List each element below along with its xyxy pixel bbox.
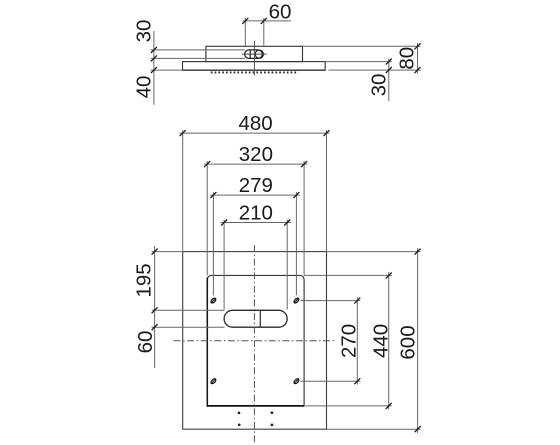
dim 440: dimension line [388, 272, 390, 410]
dim 195/60 (left): dimension line [154, 246, 156, 368]
svg-text:40: 40 [133, 76, 156, 99]
svg-text:30: 30 [367, 74, 390, 97]
dim 60 (top): dimension line [243, 20, 291, 22]
elevation vertical centerline [253, 41, 255, 76]
dim 279: dimension line [210, 194, 300, 196]
svg-text:210: 210 [239, 202, 273, 225]
supply connector stadium [245, 50, 263, 59]
dim 600: ticks [415, 249, 421, 433]
dim 195/60 (left): extension lines [152, 252, 225, 328]
svg-text:440: 440 [369, 324, 392, 358]
plan vertical centerline [253, 245, 255, 444]
dim 279: extension lines [213, 192, 296, 295]
dim 210: ticks [221, 220, 290, 226]
dim 30/40 (left): ticks [151, 47, 157, 73]
svg-text:279: 279 [239, 174, 273, 197]
dim 320: ticks [204, 161, 307, 167]
svg-text:195: 195 [133, 263, 156, 297]
slot divider line [259, 310, 261, 327]
dim 440: ticks [386, 272, 392, 409]
plate bottom edge (bold) [207, 405, 305, 407]
dim 440: extension lines [304, 275, 392, 406]
nozzle dotted row under panel [211, 71, 299, 73]
dim 30/40 (left): extension lines [151, 50, 245, 70]
screw hole top-left [210, 297, 217, 304]
connector chord line [249, 50, 251, 58]
dim 270: dimension line [356, 297, 358, 384]
svg-text:600: 600 [397, 325, 420, 359]
connector circle [255, 50, 263, 58]
dim 600: extension lines [327, 252, 421, 430]
dim 30/40 (left): dimension line [153, 31, 155, 105]
dim 279: ticks [210, 192, 299, 198]
svg-text:30: 30 [133, 20, 156, 43]
elevation horizontal centerline [242, 53, 267, 55]
plan horizontal centerline [174, 340, 337, 342]
dim 60 (top): extension lines [245, 18, 263, 46]
screw hole top-right [293, 297, 300, 304]
plate left edge (bold) [206, 278, 208, 407]
dim 480: ticks [180, 130, 330, 136]
dim 80 (right): extension lines [303, 46, 421, 70]
screw hole bottom-left [210, 378, 217, 385]
svg-text:80: 80 [396, 47, 419, 70]
dim 270: extension lines [301, 301, 361, 382]
dim 30 (right): dimension line [388, 59, 390, 101]
dim 270: ticks [354, 298, 360, 385]
svg-text:320: 320 [239, 143, 273, 166]
mounting plate 320x440 [207, 275, 304, 405]
dim 80 (right): ticks [415, 43, 421, 73]
dim 480: dimension line [180, 132, 330, 134]
slot (spray opening) [224, 310, 287, 327]
panel (shower face) outline [183, 62, 326, 71]
outer rectangle 480x600 [183, 252, 327, 430]
dim 80 (right): dimension line [417, 43, 419, 74]
dim 30 (right): ticks [386, 59, 392, 74]
dim 320: extension lines [207, 161, 304, 275]
svg-text:270: 270 [338, 324, 361, 358]
dim 60 (top): ticks [242, 18, 266, 24]
dim 480: extension lines [183, 130, 327, 252]
dim 600: dimension line [417, 248, 419, 433]
dim 210: extension lines [224, 220, 287, 310]
four fixing dots bottom [238, 411, 274, 426]
mounting box outline [206, 46, 303, 61]
dim 195/60 (left): ticks [152, 249, 158, 331]
dim 320: dimension line [204, 163, 308, 165]
svg-text:60: 60 [134, 331, 157, 354]
screw hole bottom-right [293, 378, 300, 385]
svg-text:480: 480 [238, 112, 272, 135]
dim 210: dimension line [221, 222, 291, 224]
dim 30 (right): extension line [325, 61, 392, 63]
svg-text:60: 60 [269, 0, 292, 23]
